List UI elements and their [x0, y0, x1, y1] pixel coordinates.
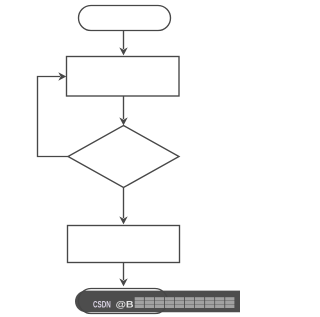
watermark chinese glyph blocks: [134, 297, 235, 308]
watermark pill background: [75, 291, 240, 313]
wire: decision to process 2: [123, 188, 125, 219]
loop wire: decision left vertex back to process 1: [38, 77, 69, 157]
terminator: end: [79, 289, 168, 314]
decision diamond: [68, 126, 179, 188]
arrowhead into decision: [119, 117, 127, 125]
process box 2: [68, 226, 180, 263]
arrowhead into process 1 left edge: [58, 72, 66, 80]
svg-text:@B: @B: [116, 299, 134, 309]
process box 1: [67, 57, 180, 97]
arrowhead into process 2: [119, 216, 127, 224]
wire: process 1 to decision: [123, 97, 125, 120]
arrowhead into end terminator: [119, 278, 127, 286]
wire: process 2 to end: [123, 262, 125, 280]
arrowhead into process 1: [119, 47, 127, 55]
svg-text:CSDN: CSDN: [93, 299, 111, 309]
terminator: start: [79, 6, 171, 31]
wire: start to process 1: [123, 31, 125, 49]
